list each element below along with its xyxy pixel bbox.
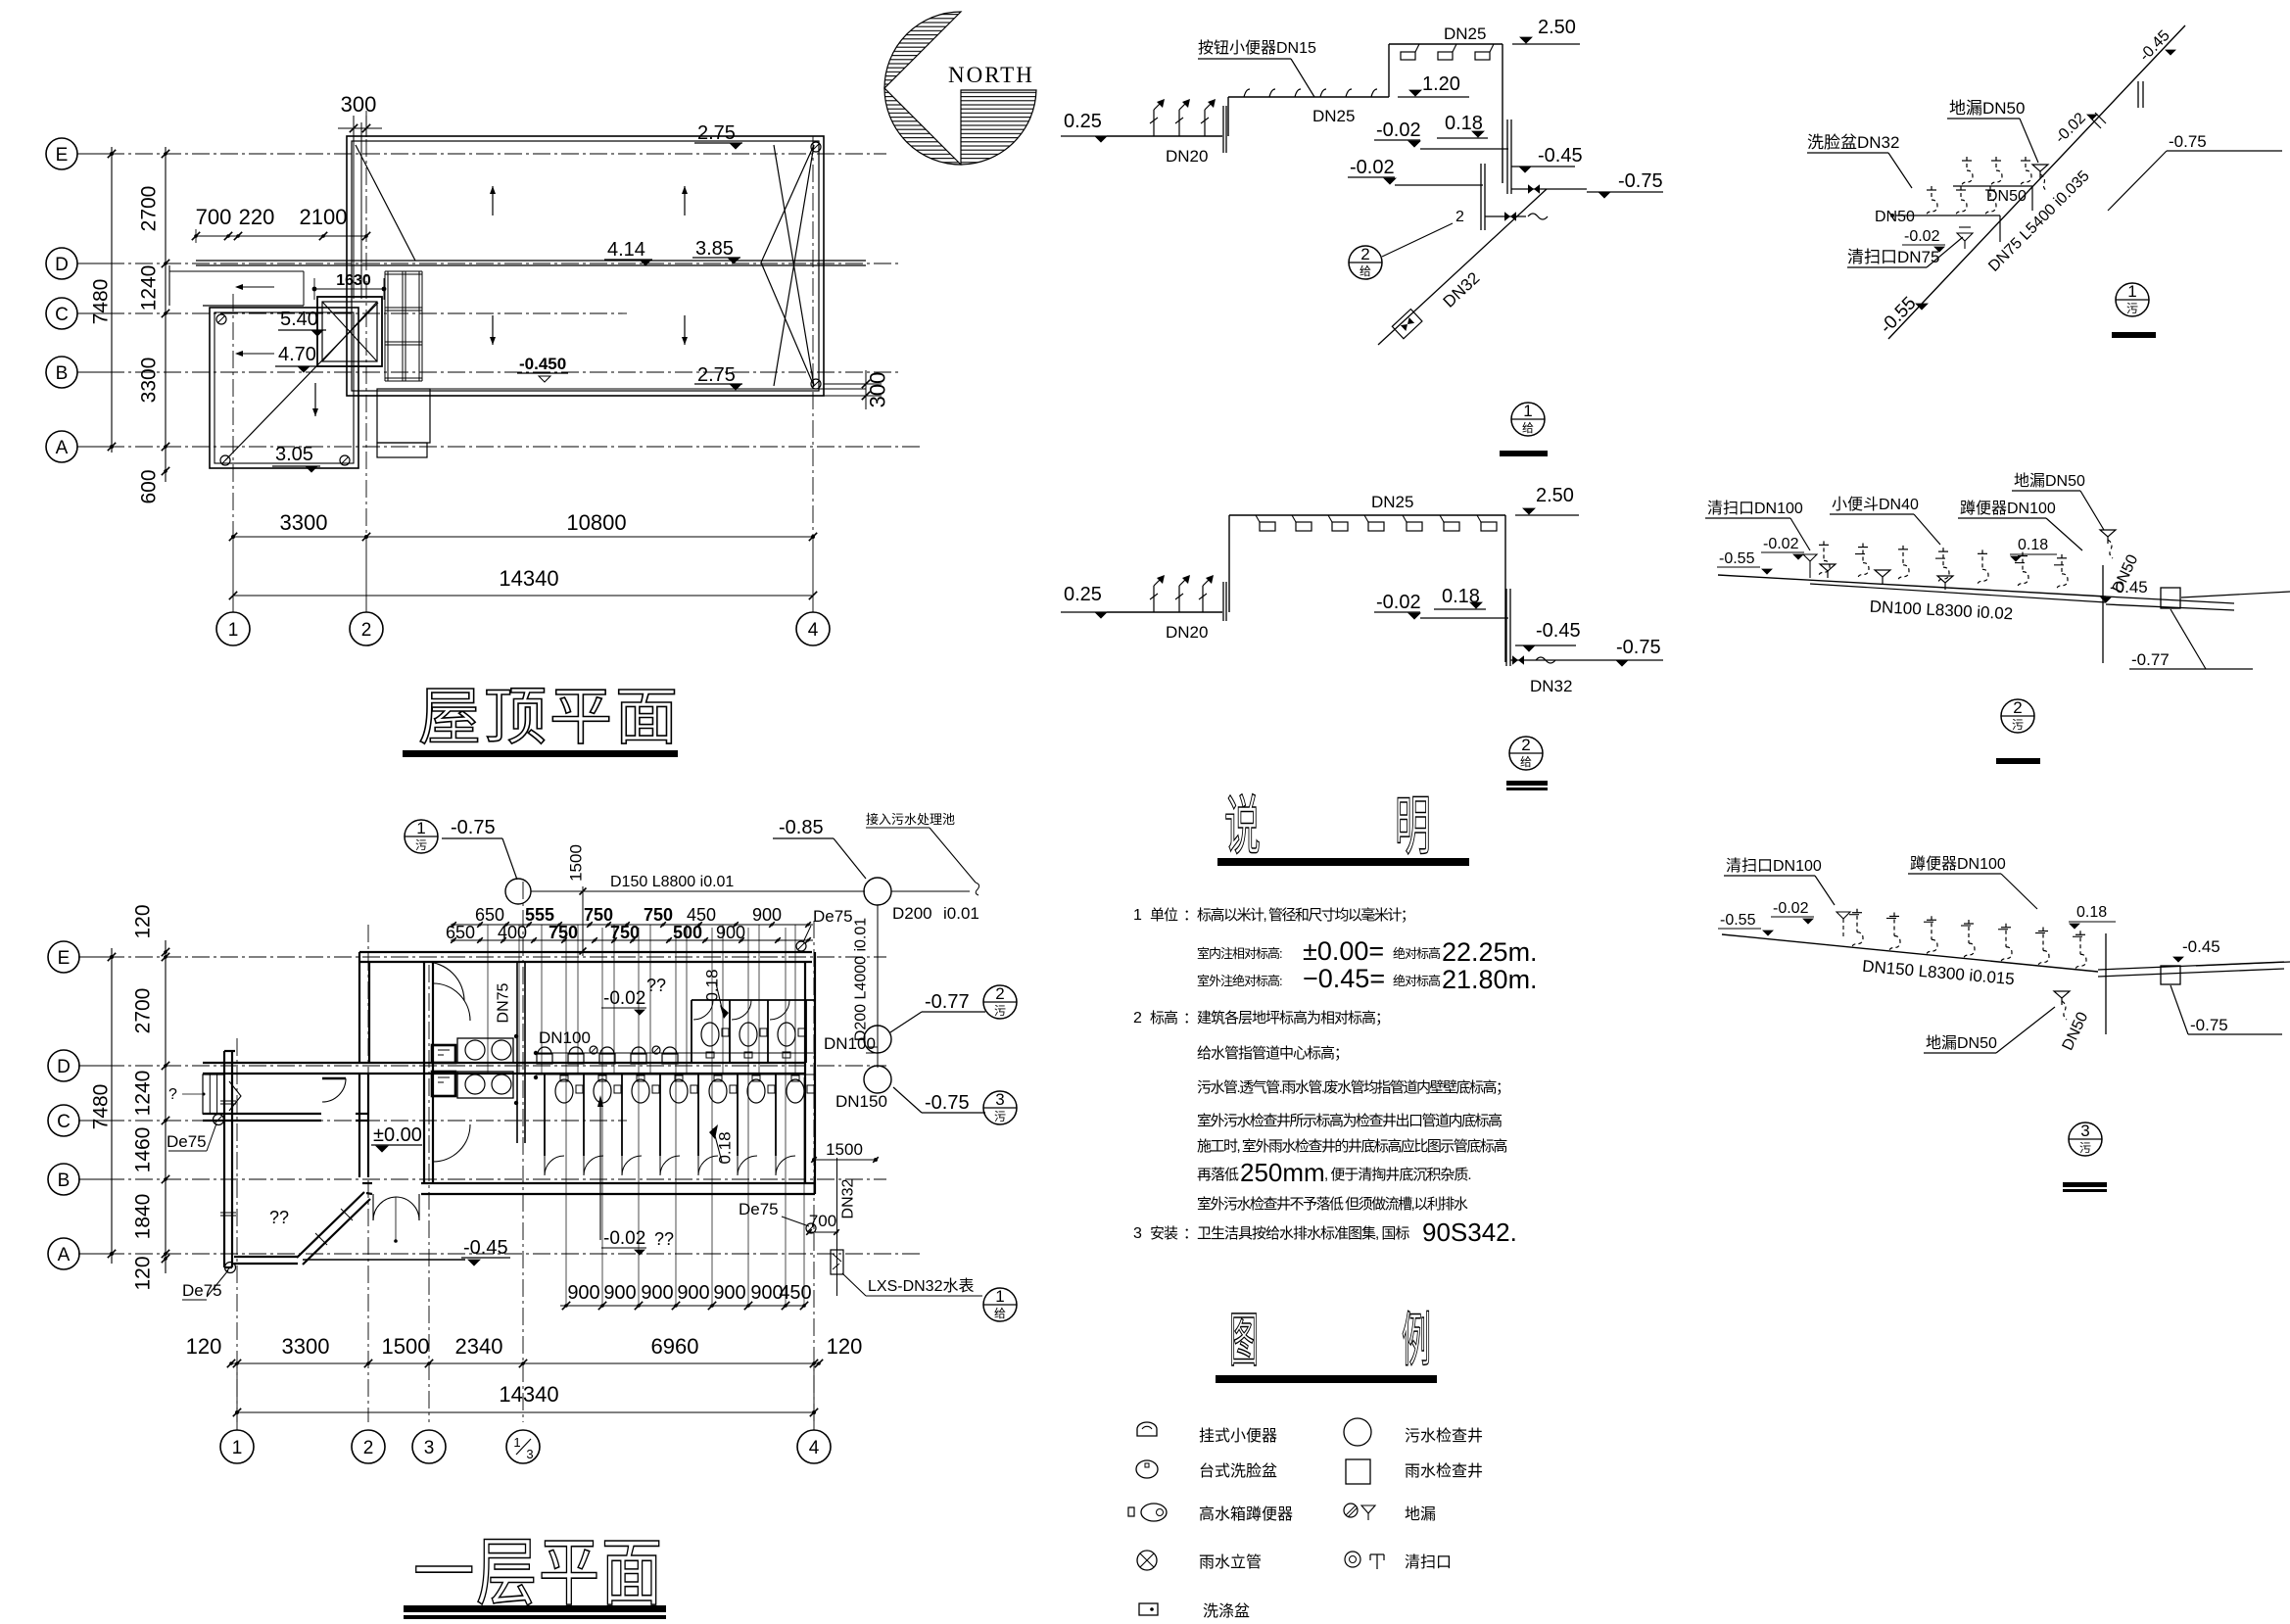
svg-text:污: 污 [2126, 302, 2138, 315]
svg-text:DN150: DN150 [835, 1092, 887, 1111]
svg-text:说: 说 [1224, 791, 1261, 863]
svg-text:750: 750 [644, 905, 673, 925]
svg-text:按钮小便器DN15: 按钮小便器DN15 [1198, 39, 1316, 57]
svg-text:3.85: 3.85 [695, 238, 734, 260]
svg-text:3: 3 [526, 1447, 533, 1461]
svg-text:3300: 3300 [280, 510, 328, 535]
svg-text:室内注相对标高:: 室内注相对标高: [1197, 946, 1282, 961]
svg-text:0.18: 0.18 [2076, 904, 2107, 921]
svg-text:0.25: 0.25 [1064, 584, 1102, 605]
svg-text:DN25: DN25 [1444, 24, 1486, 43]
svg-text:高水箱蹲便器: 高水箱蹲便器 [1199, 1505, 1293, 1523]
svg-text:D200 L4000 i0.01: D200 L4000 i0.01 [853, 918, 870, 1041]
svg-text:D200: D200 [892, 904, 932, 923]
svg-text:1: 1 [1133, 907, 1142, 924]
svg-text:??: ?? [646, 976, 666, 995]
svg-text:A: A [56, 438, 69, 458]
svg-text:一层平面: 一层平面 [413, 1531, 664, 1614]
svg-text:0.18: 0.18 [716, 1131, 735, 1164]
svg-text:-0.55: -0.55 [1720, 912, 1756, 929]
svg-text:400: 400 [498, 923, 527, 942]
svg-text:污: 污 [994, 1110, 1006, 1123]
svg-text:-0.02: -0.02 [603, 988, 645, 1009]
svg-text:DN32: DN32 [840, 1178, 857, 1218]
svg-text:De75: De75 [167, 1132, 207, 1151]
svg-text:单位: 单位 [1150, 907, 1178, 924]
svg-text:NORTH: NORTH [948, 63, 1034, 87]
svg-text:C: C [57, 1112, 71, 1132]
svg-text:-0.450: -0.450 [519, 355, 566, 373]
svg-text:, 便于清掏井底沉积杂质.: , 便于清掏井底沉积杂质. [1324, 1167, 1471, 1183]
svg-text:-0.45: -0.45 [1538, 145, 1583, 167]
svg-text:-0.77: -0.77 [925, 991, 970, 1013]
svg-text:1500: 1500 [826, 1140, 863, 1159]
svg-text:明: 明 [1395, 791, 1431, 863]
svg-text:建筑各层地坪标高为相对标高；: 建筑各层地坪标高为相对标高； [1197, 1010, 1389, 1027]
svg-text:1: 1 [228, 620, 239, 641]
svg-text:7480: 7480 [90, 279, 113, 325]
svg-text:22.25m.: 22.25m. [1442, 937, 1538, 967]
svg-text:1500: 1500 [382, 1334, 430, 1359]
svg-text:1: 1 [232, 1438, 243, 1458]
svg-text:900: 900 [716, 923, 745, 942]
svg-text:450: 450 [779, 1282, 811, 1304]
svg-text:-0.02: -0.02 [603, 1228, 645, 1249]
svg-text:??: ?? [269, 1208, 289, 1227]
svg-text:-0.75: -0.75 [1616, 637, 1661, 658]
svg-text:安装: 安装 [1150, 1225, 1178, 1242]
svg-text:±0.00=: ±0.00= [1303, 936, 1384, 966]
svg-text:污水检查井: 污水检查井 [1405, 1427, 1483, 1445]
svg-text:标高: 标高 [1150, 1010, 1178, 1027]
svg-text:750: 750 [610, 923, 640, 942]
svg-text:-0.85: -0.85 [779, 817, 824, 838]
svg-text:雨水检查井: 雨水检查井 [1405, 1462, 1483, 1480]
svg-text:地漏DN50: 地漏DN50 [2014, 472, 2085, 490]
svg-text:1.20: 1.20 [1422, 73, 1460, 95]
svg-text:-0.45: -0.45 [463, 1237, 508, 1259]
svg-text:14340: 14340 [499, 1382, 558, 1407]
svg-text:洗涤盆: 洗涤盆 [1203, 1602, 1250, 1619]
svg-text:污: 污 [415, 838, 427, 852]
svg-text:1240: 1240 [138, 265, 161, 311]
svg-text:污: 污 [2079, 1141, 2091, 1155]
svg-text:450: 450 [687, 905, 716, 925]
svg-text:750: 750 [584, 905, 613, 925]
svg-text:6960: 6960 [651, 1334, 699, 1359]
svg-text:给水管指管道中心标高；: 给水管指管道中心标高； [1197, 1045, 1348, 1062]
svg-text:1: 1 [416, 819, 425, 837]
svg-text:700: 700 [196, 205, 232, 229]
svg-text:B: B [56, 363, 69, 384]
svg-text:E: E [58, 948, 71, 969]
svg-text:4.14: 4.14 [607, 239, 645, 261]
svg-text:3300: 3300 [138, 358, 161, 404]
svg-text:B: B [58, 1170, 71, 1191]
svg-text:2.75: 2.75 [697, 364, 736, 386]
svg-text:-0.02: -0.02 [1376, 592, 1421, 613]
svg-text:750: 750 [549, 923, 578, 942]
svg-text:2.50: 2.50 [1536, 485, 1574, 506]
svg-text:120: 120 [132, 1256, 155, 1290]
svg-text:雨水立管: 雨水立管 [1199, 1553, 1262, 1571]
svg-text:De75: De75 [739, 1200, 779, 1218]
svg-text:2340: 2340 [455, 1334, 503, 1359]
svg-text:污: 污 [2012, 718, 2024, 732]
svg-text:0.18: 0.18 [2018, 537, 2048, 553]
svg-text:-0.77: -0.77 [2131, 650, 2170, 669]
svg-text:2: 2 [1455, 209, 1464, 225]
svg-text:再落低: 再落低 [1197, 1167, 1239, 1183]
svg-text:2: 2 [1133, 1010, 1142, 1027]
svg-text:清扫口DN100: 清扫口DN100 [1726, 857, 1822, 875]
svg-text:地漏DN50: 地漏DN50 [1949, 99, 2025, 118]
svg-text:4.70: 4.70 [278, 344, 316, 365]
svg-text:小便斗DN40: 小便斗DN40 [1832, 496, 1919, 513]
svg-text:-0.75: -0.75 [451, 817, 496, 838]
svg-text:绝对标高: 绝对标高 [1393, 946, 1441, 961]
svg-text:900: 900 [677, 1282, 709, 1304]
svg-text:DN100: DN100 [824, 1034, 876, 1053]
svg-text:A: A [58, 1245, 71, 1266]
svg-text:4: 4 [809, 1438, 820, 1458]
svg-text:-0.75: -0.75 [925, 1092, 970, 1114]
svg-text:-0.02: -0.02 [1904, 228, 1940, 245]
svg-text:给: 给 [994, 1307, 1006, 1320]
svg-text:4: 4 [808, 620, 819, 641]
svg-text:C: C [55, 305, 69, 325]
svg-text:1460: 1460 [132, 1127, 155, 1173]
svg-text:1: 1 [995, 1287, 1004, 1306]
svg-text:：: ： [1183, 1225, 1198, 1242]
svg-text:污水管.透气管.雨水管.废水管均指管道内壁壁底标高；: 污水管.透气管.雨水管.废水管均指管道内壁壁底标高； [1197, 1079, 1509, 1096]
svg-text:3300: 3300 [282, 1334, 330, 1359]
svg-text:给: 给 [1520, 755, 1532, 769]
svg-text:施工时, 室外雨水检查井的井底标高应比图示管底标高: 施工时, 室外雨水检查井的井底标高应比图示管底标高 [1197, 1137, 1507, 1155]
svg-text:地漏: 地漏 [1405, 1505, 1436, 1523]
svg-text:：: ： [1183, 907, 1198, 924]
svg-text:120: 120 [186, 1334, 222, 1359]
svg-text:900: 900 [567, 1282, 599, 1304]
svg-text:650: 650 [475, 905, 504, 925]
svg-text:DN20: DN20 [1166, 147, 1208, 166]
svg-text:3: 3 [424, 1438, 435, 1458]
svg-text:??: ?? [654, 1229, 674, 1249]
svg-text:清扫口DN100: 清扫口DN100 [1707, 500, 1803, 517]
svg-text:De75: De75 [813, 907, 853, 926]
svg-text:220: 220 [239, 205, 275, 229]
svg-text:-0.45: -0.45 [1536, 620, 1581, 642]
svg-text:±0.00: ±0.00 [373, 1124, 422, 1146]
svg-text:2700: 2700 [138, 186, 161, 232]
svg-text:地漏DN50: 地漏DN50 [1926, 1034, 1997, 1052]
svg-text:接入污水处理池: 接入污水处理池 [866, 812, 955, 827]
svg-text:标高以米计, 管径和尺寸均以毫米计；: 标高以米计, 管径和尺寸均以毫米计； [1197, 906, 1413, 924]
svg-text:-0.45: -0.45 [2110, 578, 2148, 597]
svg-text:300: 300 [866, 372, 890, 408]
svg-text:7480: 7480 [90, 1084, 113, 1130]
svg-text:DN100: DN100 [539, 1028, 591, 1047]
svg-text:?: ? [168, 1086, 177, 1103]
svg-text:蹲便器DN100: 蹲便器DN100 [1960, 500, 2056, 517]
svg-text:90S342.: 90S342. [1422, 1218, 1517, 1247]
svg-text:E: E [56, 145, 69, 166]
svg-text:2.75: 2.75 [697, 122, 736, 144]
svg-text:DN20: DN20 [1166, 623, 1208, 642]
svg-text:1500: 1500 [567, 844, 586, 882]
svg-text:900: 900 [713, 1282, 745, 1304]
svg-text:120: 120 [827, 1334, 863, 1359]
svg-text:-0.45: -0.45 [2182, 937, 2220, 956]
svg-text:LXS-DN32水表: LXS-DN32水表 [868, 1277, 974, 1295]
svg-text:DN50: DN50 [1875, 209, 1915, 225]
svg-text:3: 3 [1133, 1225, 1142, 1242]
svg-text:De75: De75 [182, 1281, 222, 1300]
svg-text:250mm: 250mm [1240, 1158, 1325, 1187]
svg-text:2100: 2100 [300, 205, 348, 229]
svg-text:-0.02: -0.02 [1376, 119, 1421, 141]
svg-text:0.18: 0.18 [703, 969, 722, 1001]
svg-text:2: 2 [361, 620, 372, 641]
svg-text:2700: 2700 [132, 988, 155, 1034]
svg-text:-0.55: -0.55 [1719, 550, 1755, 567]
svg-text:清扫口: 清扫口 [1405, 1553, 1452, 1571]
svg-text:卫生洁具按给水排水标准图集, 国标: 卫生洁具按给水排水标准图集, 国标 [1197, 1225, 1409, 1242]
svg-text:14340: 14340 [499, 566, 558, 591]
svg-text:3: 3 [995, 1090, 1004, 1109]
svg-text:例: 例 [1402, 1309, 1431, 1374]
svg-text:−0.45=: −0.45= [1303, 964, 1385, 993]
svg-text:2: 2 [995, 984, 1004, 1003]
svg-text:0.25: 0.25 [1064, 111, 1102, 132]
svg-text:700: 700 [809, 1212, 836, 1230]
svg-text:给: 给 [1360, 264, 1371, 278]
svg-text:蹲便器DN100: 蹲便器DN100 [1910, 855, 2006, 873]
svg-text:10800: 10800 [566, 510, 626, 535]
svg-text:300: 300 [341, 92, 377, 117]
svg-text:洗脸盆DN32: 洗脸盆DN32 [1807, 133, 1899, 152]
svg-text:清扫口DN75: 清扫口DN75 [1847, 248, 1939, 266]
svg-text:-0.02: -0.02 [1763, 536, 1799, 552]
svg-text:2: 2 [363, 1438, 374, 1458]
svg-text:DN25: DN25 [1312, 107, 1355, 125]
svg-text:1: 1 [2127, 282, 2136, 301]
svg-text:DN50: DN50 [1986, 188, 2027, 205]
svg-text:：: ： [1183, 1010, 1198, 1027]
svg-text:D: D [55, 255, 69, 275]
svg-text:给: 给 [1522, 421, 1534, 435]
svg-text:2.50: 2.50 [1538, 17, 1576, 38]
svg-text:-0.75: -0.75 [2190, 1016, 2228, 1034]
svg-text:-0.75: -0.75 [1618, 170, 1663, 192]
svg-text:2: 2 [1521, 736, 1530, 754]
svg-text:DN32: DN32 [1530, 677, 1572, 695]
svg-text:21.80m.: 21.80m. [1442, 965, 1538, 994]
svg-text:2: 2 [2013, 698, 2022, 717]
svg-text:室外污水检查井所示标高为检查井出口管道内底标高: 室外污水检查井所示标高为检查井出口管道内底标高 [1197, 1113, 1503, 1129]
svg-text:1240: 1240 [132, 1071, 155, 1117]
svg-text:1: 1 [1523, 402, 1532, 420]
svg-text:3.05: 3.05 [275, 444, 313, 465]
svg-text:600: 600 [138, 469, 161, 503]
svg-text:1840: 1840 [132, 1194, 155, 1240]
svg-text:图: 图 [1229, 1309, 1259, 1374]
svg-text:-0.02: -0.02 [1350, 157, 1395, 178]
svg-text:5.40: 5.40 [280, 309, 318, 330]
svg-text:污: 污 [994, 1004, 1006, 1018]
svg-text:i0.01: i0.01 [943, 904, 979, 923]
svg-text:屋顶平面: 屋顶平面 [418, 682, 681, 752]
svg-text:室外注绝对标高:: 室外注绝对标高: [1197, 974, 1282, 988]
svg-text:D: D [57, 1057, 71, 1077]
svg-text:2: 2 [1360, 245, 1369, 263]
svg-text:900: 900 [641, 1282, 673, 1304]
svg-text:900: 900 [603, 1282, 636, 1304]
svg-text:DN25: DN25 [1371, 493, 1413, 511]
svg-text:-0.02: -0.02 [1773, 900, 1809, 917]
svg-text:900: 900 [752, 905, 782, 925]
svg-text:500: 500 [673, 923, 702, 942]
svg-text:3: 3 [2080, 1122, 2089, 1140]
svg-text:室外污水检查井不予落低 但须做流槽,以利排水: 室外污水检查井不予落低 但须做流槽,以利排水 [1197, 1196, 1468, 1213]
svg-text:1: 1 [513, 1435, 520, 1450]
svg-text:555: 555 [525, 905, 554, 925]
svg-text:绝对标高: 绝对标高 [1393, 974, 1441, 988]
svg-text:650: 650 [446, 923, 475, 942]
svg-text:挂式小便器: 挂式小便器 [1199, 1427, 1277, 1445]
svg-text:台式洗脸盆: 台式洗脸盆 [1199, 1462, 1277, 1480]
svg-text:1630: 1630 [336, 272, 371, 289]
svg-text:-0.75: -0.75 [2169, 132, 2207, 151]
svg-text:120: 120 [132, 904, 155, 938]
svg-text:D150 L8800 i0.01: D150 L8800 i0.01 [610, 874, 734, 890]
svg-text:DN75: DN75 [496, 982, 512, 1023]
